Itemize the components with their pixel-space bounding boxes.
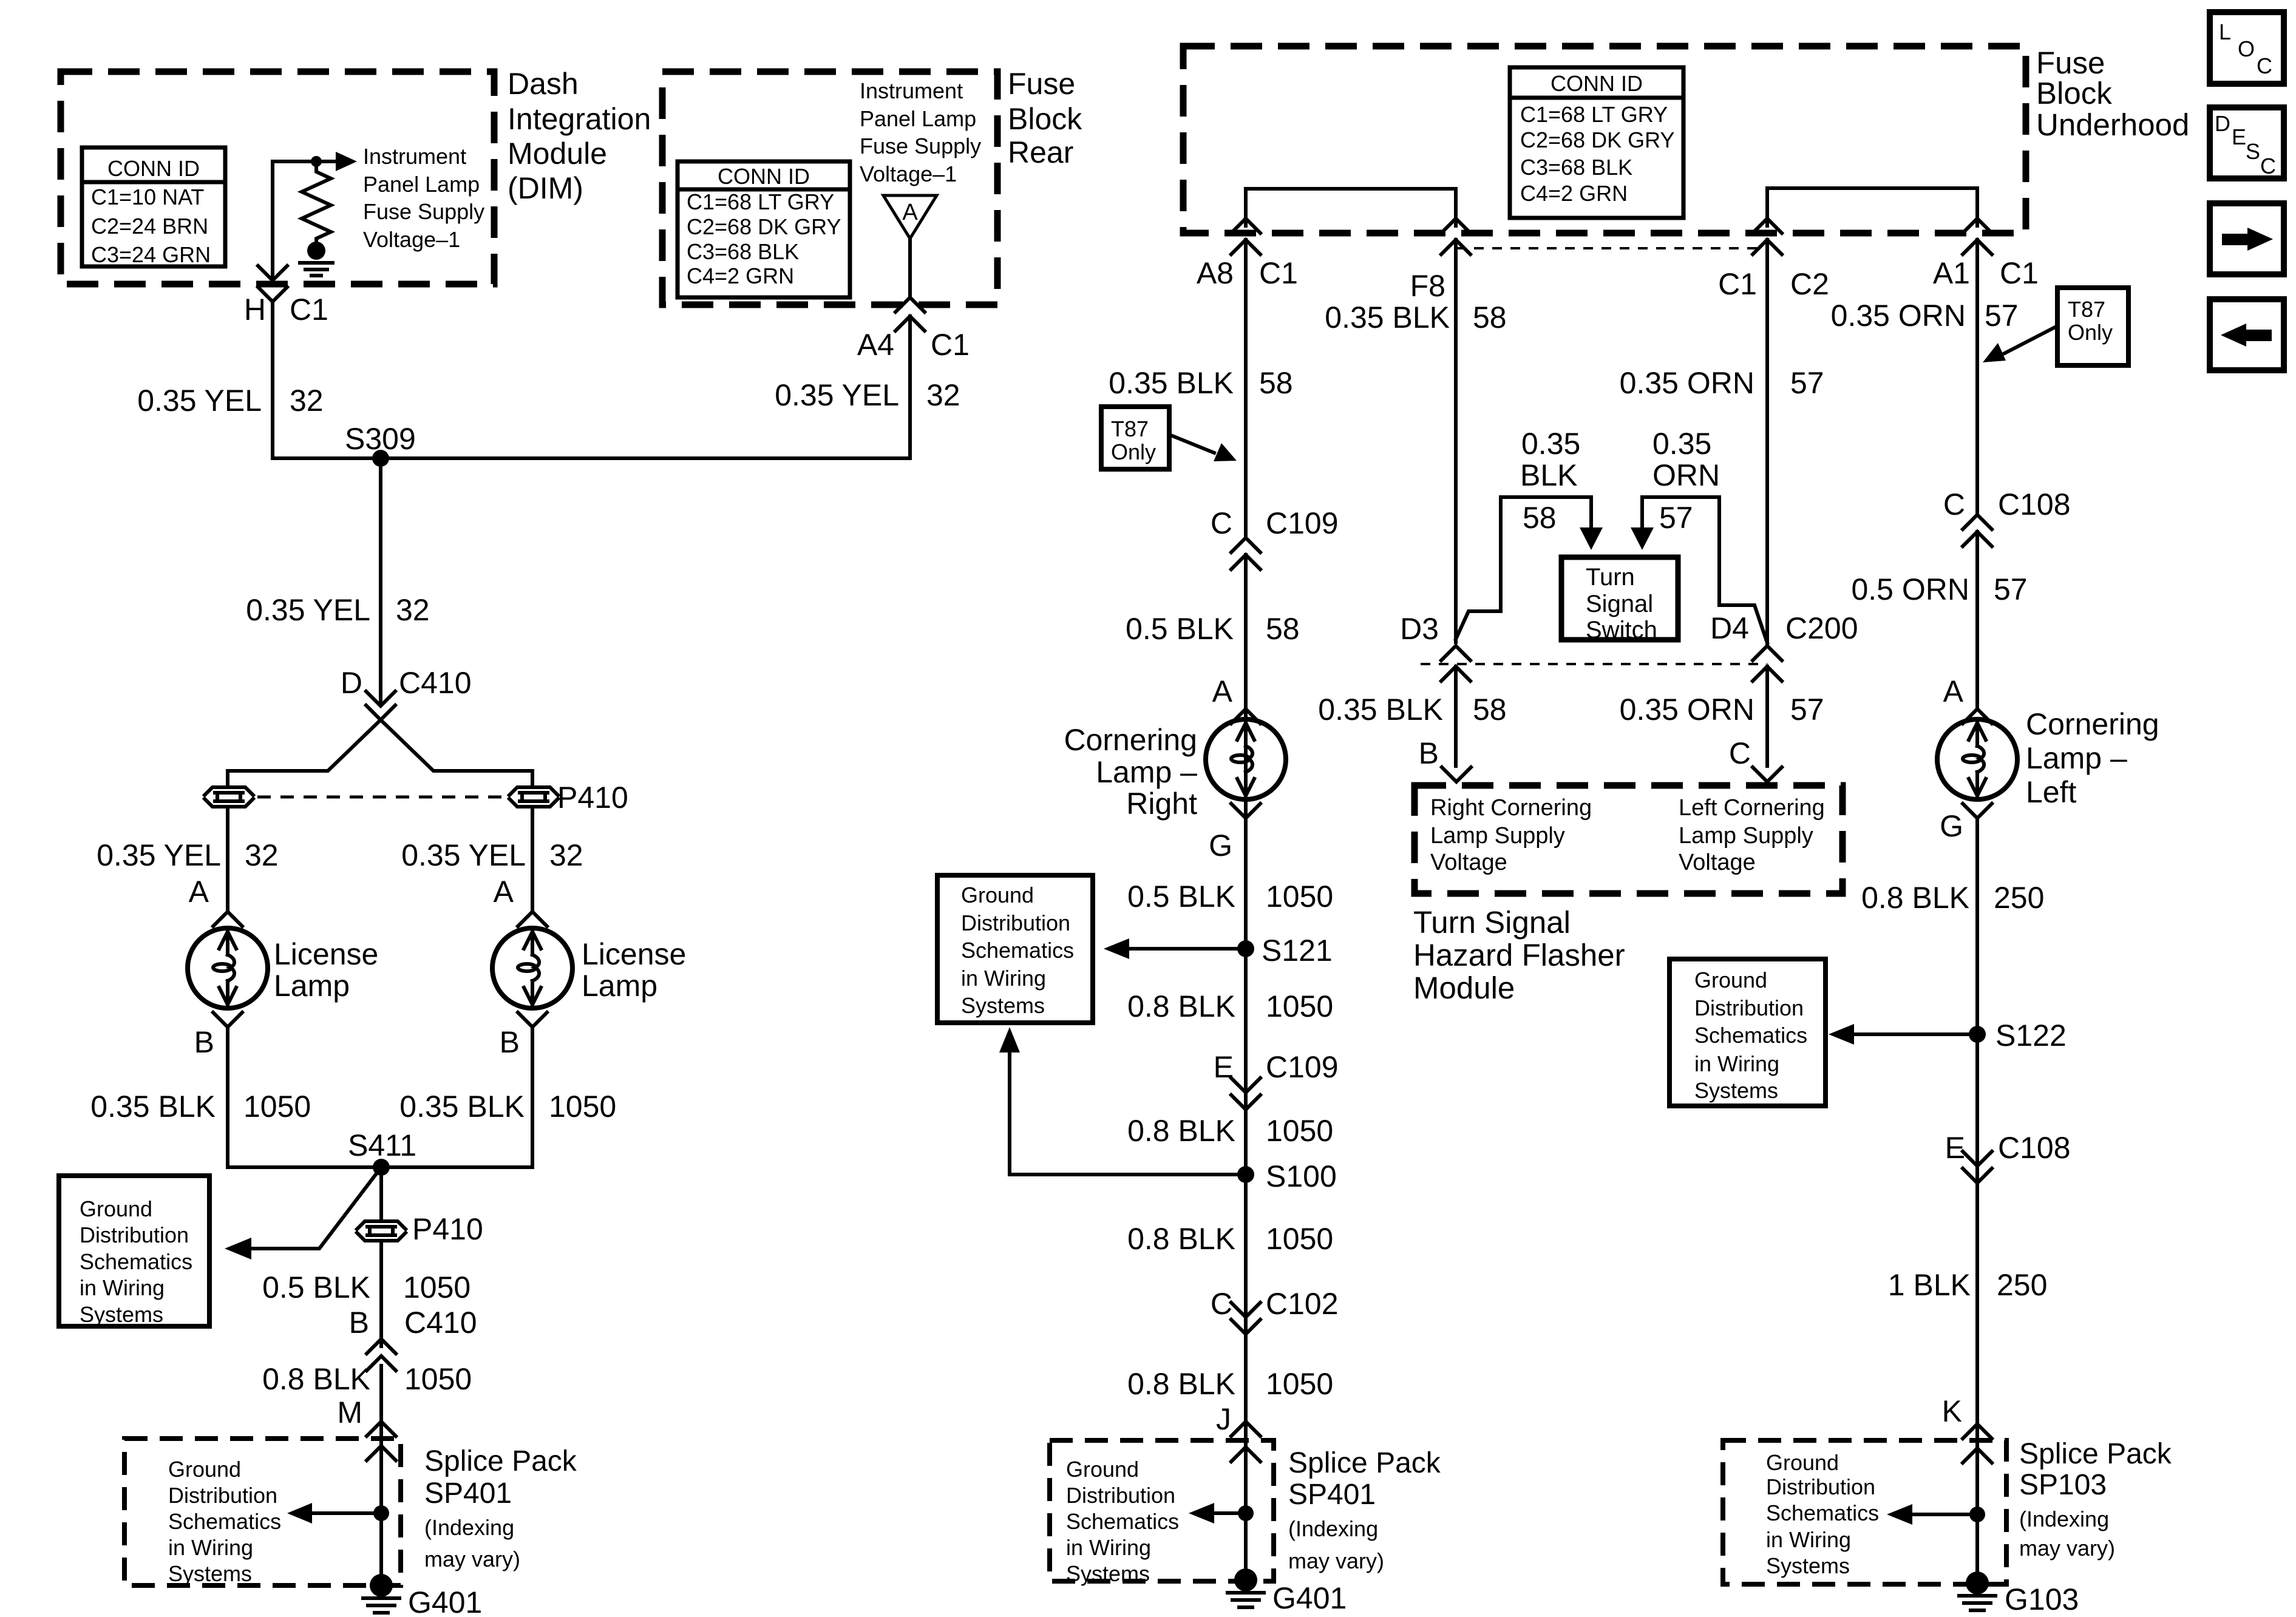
pin G cornering lamp right: [1209, 804, 1260, 863]
wire: S411 reference arrow to ground distribution note: [225, 1167, 381, 1259]
label: Fuse Block Underhood: [2036, 46, 2189, 142]
svg-text:Voltage–1: Voltage–1: [860, 161, 957, 186]
connector A4 / C1 at FBR boundary: [895, 297, 925, 331]
pin J: [1216, 1402, 1260, 1436]
svg-text:0.5 BLK: 0.5 BLK: [1126, 612, 1234, 646]
svg-text:58: 58: [1259, 366, 1293, 400]
svg-text:58: 58: [1266, 612, 1300, 646]
svg-text:0.8 BLK: 0.8 BLK: [1127, 1114, 1235, 1148]
wire: fuse to connector: [908, 239, 912, 295]
svg-text:B: B: [194, 1025, 214, 1059]
svg-text:Splice Pack: Splice Pack: [2019, 1438, 2172, 1470]
svg-text:SP401: SP401: [1288, 1479, 1376, 1511]
wire: S309 tie bar: [273, 456, 910, 460]
label: 0.35 BLK 58: [1109, 366, 1292, 400]
wire: 0.5 BLK 1050: [379, 1242, 383, 1346]
svg-text:T87: T87: [2068, 297, 2105, 322]
grommet P410 left: [205, 787, 253, 807]
svg-text:CONN ID: CONN ID: [107, 156, 200, 181]
note box T87 Only (left): [1101, 407, 1169, 469]
svg-text:Fuse Supply: Fuse Supply: [363, 199, 484, 224]
svg-text:Block: Block: [2036, 76, 2112, 110]
svg-text:Turn: Turn: [1586, 564, 1635, 591]
svg-text:Integration: Integration: [508, 102, 651, 136]
label: 0.8 BLK 1050: [262, 1362, 472, 1396]
label: 0.35 ORN 57 (switch right): [1652, 427, 1720, 535]
node S411: [348, 1128, 416, 1176]
svg-text:Left Cornering: Left Cornering: [1679, 795, 1825, 821]
connector E / C109: [1214, 1050, 1339, 1110]
label: Instrument Panel Lamp Fuse Supply Voltage-1 (FBR): [860, 78, 981, 186]
svg-text:0.5 ORN: 0.5 ORN: [1851, 572, 1969, 606]
svg-text:L: L: [2219, 19, 2231, 44]
lamp License Lamp right: [492, 928, 686, 1008]
icon box arrow left: [2210, 299, 2284, 370]
pin label C1 / C2: [1718, 267, 1829, 301]
svg-text:0.5 BLK: 0.5 BLK: [1127, 880, 1235, 914]
pin B right license lamp: [500, 1012, 547, 1059]
module box DIM (dashed): [61, 72, 494, 284]
svg-text:57: 57: [1659, 501, 1693, 535]
svg-text:1050: 1050: [1266, 1367, 1333, 1401]
svg-text:250: 250: [1994, 881, 2044, 915]
connector H / C1 at DIM boundary: [258, 266, 287, 302]
svg-text:C: C: [1211, 1287, 1232, 1321]
pin label F8: [1410, 269, 1445, 303]
svg-text:in Wiring: in Wiring: [1694, 1051, 1779, 1076]
svg-text:A: A: [1943, 674, 1964, 708]
svg-text:1050: 1050: [1266, 989, 1333, 1023]
svg-text:Right: Right: [1126, 787, 1197, 821]
wire: 0.8 BLK 1050 to splice pack: [379, 1366, 383, 1585]
pin label C1: [931, 328, 970, 362]
wire: 0.35 BLK 58 from A8: [1244, 240, 1248, 537]
svg-text:J: J: [1216, 1402, 1231, 1436]
label: Fuse Block Rear: [1008, 67, 1082, 169]
svg-text:CONN ID: CONN ID: [1550, 71, 1643, 96]
svg-text:Lamp –: Lamp –: [1096, 755, 1197, 789]
svg-text:in Wiring: in Wiring: [961, 966, 1046, 991]
connector arrows leaving fuse block: [1231, 240, 1992, 254]
wire: S411 to P410 grommet: [379, 1167, 383, 1220]
node: junction dot on resistor feed: [311, 156, 322, 167]
pin label A8 / C1: [1197, 256, 1298, 290]
svg-text:32: 32: [245, 838, 279, 872]
label: 0.5 ORN 57: [1851, 572, 2027, 606]
svg-text:0.35 YEL: 0.35 YEL: [137, 384, 262, 418]
svg-text:Systems: Systems: [1766, 1553, 1850, 1578]
wire: 0.8 BLK 250 down through S122: [1975, 818, 1979, 1585]
svg-text:Underhood: Underhood: [2036, 107, 2189, 142]
svg-text:Block: Block: [1008, 102, 1082, 136]
node S122: [1969, 1019, 2067, 1053]
svg-text:F8: F8: [1410, 269, 1445, 303]
note box T87 Only (right): [2057, 288, 2128, 365]
ground G401 (middle): [1228, 1568, 1347, 1615]
svg-text:Schematics: Schematics: [1066, 1509, 1179, 1534]
module box Fuse Block Underhood (dashed): [1183, 46, 2026, 233]
svg-text:C2=68 DK GRY: C2=68 DK GRY: [1520, 127, 1674, 152]
connector B / C410: [349, 1306, 477, 1371]
svg-text:Distribution: Distribution: [80, 1222, 189, 1247]
svg-text:0.35: 0.35: [1652, 427, 1711, 461]
svg-text:Systems: Systems: [961, 993, 1045, 1018]
svg-text:0.35 YEL: 0.35 YEL: [401, 838, 526, 872]
svg-text:C: C: [2260, 154, 2276, 178]
svg-text:0.35 BLK: 0.35 BLK: [399, 1090, 525, 1124]
svg-text:Distribution: Distribution: [961, 910, 1070, 935]
wire: branch D4 to turn signal switch: [1631, 497, 1767, 643]
svg-text:C1: C1: [1259, 256, 1298, 290]
label: Turn Signal Hazard Flasher Module: [1413, 905, 1625, 1005]
svg-text:Schematics: Schematics: [1694, 1023, 1807, 1048]
svg-text:Fuse Supply: Fuse Supply: [860, 134, 981, 158]
label: 0.35 ORN 57 (A1): [1831, 299, 2019, 333]
svg-text:57: 57: [1994, 572, 2028, 606]
svg-text:32: 32: [396, 593, 430, 627]
svg-text:0.35 YEL: 0.35 YEL: [246, 593, 370, 627]
splice pack SP103 box (dashed): [1723, 1440, 2006, 1584]
svg-text:57: 57: [1790, 693, 1824, 727]
svg-text:S: S: [2246, 139, 2260, 164]
svg-text:C1: C1: [2000, 256, 2039, 290]
label: 0.8 BLK 1050: [1127, 1367, 1333, 1401]
svg-text:B: B: [349, 1306, 369, 1340]
table CONN ID (Fuse Block Underhood): [1510, 67, 1683, 218]
wire arrow into SP401 (middle): [1231, 1447, 1260, 1462]
svg-text:S411: S411: [348, 1128, 416, 1162]
wire: 0.35 BLK 58 from F8 to D3: [1454, 240, 1458, 642]
svg-text:Panel Lamp: Panel Lamp: [860, 106, 976, 131]
svg-text:A4: A4: [857, 328, 894, 362]
svg-text:C: C: [1943, 487, 1965, 521]
svg-text:SP103: SP103: [2019, 1469, 2107, 1501]
wire: internal bus C1-A1: [1767, 188, 1977, 226]
svg-text:Schematics: Schematics: [80, 1249, 192, 1274]
svg-text:Splice Pack: Splice Pack: [1288, 1447, 1441, 1479]
svg-text:(Indexing: (Indexing: [2019, 1507, 2109, 1531]
svg-text:License: License: [274, 937, 378, 971]
label: 0.5 BLK 1050: [1127, 880, 1333, 914]
svg-text:P410: P410: [412, 1212, 483, 1246]
label: 0.35 ORN 57: [1620, 693, 1824, 727]
svg-text:C109: C109: [1266, 506, 1339, 540]
svg-text:D4: D4: [1710, 611, 1749, 645]
label: 0.8 BLK 1050: [1127, 989, 1333, 1023]
svg-text:S309: S309: [345, 422, 416, 456]
pin chevron C1 (inside): [1753, 219, 1782, 233]
svg-text:C1: C1: [1718, 267, 1757, 301]
wire: reference arrow to note (left SP401): [287, 1503, 381, 1524]
component box Turn Signal Switch: [1561, 557, 1678, 643]
wire: 0.35 BLK 1050 left: [226, 1027, 229, 1167]
svg-text:Schematics: Schematics: [1766, 1500, 1879, 1525]
pin A cornering lamp right: [1212, 674, 1260, 724]
label: 0.8 BLK 250: [1861, 881, 2044, 915]
node: SP401 internal junction: [373, 1505, 389, 1521]
svg-text:A: A: [1212, 674, 1233, 708]
ground (DIM internal): [300, 242, 333, 276]
svg-text:License: License: [582, 937, 686, 971]
svg-text:in Wiring: in Wiring: [80, 1275, 165, 1300]
svg-text:57: 57: [1790, 366, 1824, 400]
wire: split to both license lamps: [228, 720, 532, 771]
module box Turn Signal Hazard Flasher Module (dashed): [1415, 785, 1843, 893]
connector D / C410: [341, 666, 472, 720]
ground G103: [1959, 1571, 2079, 1616]
note text: Ground Distribution Schematics in Wiring Systems (SP401 middle): [1066, 1457, 1179, 1586]
svg-text:Dash: Dash: [508, 67, 579, 101]
label: Splice Pack SP103: [2019, 1438, 2172, 1561]
svg-text:Voltage: Voltage: [1430, 850, 1507, 875]
wire: left drop to P410: [226, 771, 229, 785]
wire: 0.35 YEL 32 left lamp feed: [226, 808, 229, 909]
svg-text:Rear: Rear: [1008, 135, 1073, 169]
svg-text:0.8 BLK: 0.8 BLK: [1127, 1367, 1235, 1401]
svg-text:C109: C109: [1266, 1050, 1339, 1084]
svg-text:0.35 YEL: 0.35 YEL: [775, 378, 899, 412]
wire arrow into SP401: [367, 1446, 396, 1460]
pin chevron A1 (inside): [1963, 219, 1992, 233]
node S121: [1237, 934, 1333, 968]
wire: 0.35 YEL 32 right lamp feed: [531, 808, 534, 909]
note box: Ground Distribution Schematics in Wiring Systems (right): [1669, 959, 1826, 1106]
pin A left license lamp: [189, 875, 242, 926]
svg-text:Lamp Supply: Lamp Supply: [1679, 823, 1813, 849]
svg-text:Voltage–1: Voltage–1: [363, 227, 460, 252]
svg-text:0.35 BLK: 0.35 BLK: [1109, 366, 1234, 400]
wire: S122 reference arrow: [1829, 1024, 1977, 1045]
svg-text:0.35 BLK: 0.35 BLK: [1318, 693, 1443, 727]
svg-text:in Wiring: in Wiring: [1066, 1535, 1151, 1560]
label: 0.5 BLK 1050: [262, 1270, 470, 1304]
pin A cornering lamp left: [1943, 674, 1992, 724]
note box: Ground Distribution Schematics in Wiring Systems (left): [59, 1176, 209, 1327]
label: Instrument Panel Lamp Fuse Supply Voltage-1 (DIM): [363, 144, 484, 252]
label: Right Cornering Lamp Supply Voltage: [1430, 795, 1592, 875]
label: 0.5 BLK 58: [1126, 612, 1300, 646]
svg-text:M: M: [337, 1395, 362, 1429]
svg-text:may vary): may vary): [424, 1547, 520, 1571]
svg-text:Systems: Systems: [1066, 1561, 1150, 1586]
svg-text:A8: A8: [1197, 256, 1234, 290]
svg-text:T87: T87: [1111, 416, 1149, 441]
svg-text:A1: A1: [1933, 256, 1970, 290]
wire: reference arrow to note (middle SP401): [1189, 1503, 1246, 1524]
pin label A1 / C1: [1933, 256, 2039, 290]
svg-text:Cornering: Cornering: [2026, 707, 2159, 741]
svg-text:Schematics: Schematics: [168, 1509, 281, 1534]
node S309: [345, 422, 416, 467]
grommet tie line (dashed): [257, 796, 505, 799]
label: 1 BLK 250: [1888, 1268, 2048, 1302]
wire: DIM internal feed: [273, 161, 311, 279]
icon box DESC: [2210, 107, 2284, 178]
splice pack SP401 box (left, dashed): [124, 1439, 401, 1585]
pin B left license lamp: [194, 1012, 242, 1059]
resistor (DIM internal): [302, 161, 331, 242]
svg-text:H: H: [244, 293, 266, 327]
svg-text:C2: C2: [1790, 267, 1829, 301]
node: SP103 internal junction: [1969, 1507, 1985, 1522]
svg-text:Lamp Supply: Lamp Supply: [1430, 823, 1565, 849]
label: 0.35 BLK 1050 (left): [90, 1090, 311, 1124]
ground G401 (left): [363, 1574, 482, 1617]
svg-text:C4=2 GRN: C4=2 GRN: [1520, 181, 1628, 206]
svg-text:C3=24 GRN: C3=24 GRN: [91, 242, 211, 267]
icon box LOC: [2210, 12, 2284, 84]
svg-text:Ground: Ground: [1694, 968, 1767, 992]
wire: 0.35 YEL 32 from DIM to S309: [271, 302, 274, 458]
label: 0.8 BLK 1050: [1127, 1114, 1333, 1148]
svg-text:0.8 BLK: 0.8 BLK: [1861, 881, 1969, 915]
node S100: [1237, 1159, 1337, 1193]
wire: 0.35 ORN 57 from C2 to D4: [1765, 240, 1769, 646]
svg-text:Ground: Ground: [1066, 1457, 1139, 1482]
label: 0.35 YEL 32: [137, 384, 323, 418]
svg-text:in Wiring: in Wiring: [1766, 1527, 1851, 1552]
svg-text:0.35 YEL: 0.35 YEL: [97, 838, 221, 872]
wire: arrow to Instrument Panel Lamp text: [321, 152, 357, 171]
svg-text:C1: C1: [931, 328, 970, 362]
svg-text:C: C: [1729, 736, 1751, 770]
svg-text:S100: S100: [1266, 1159, 1337, 1193]
wire: 0.35 ORN 57 from A1: [1975, 240, 1979, 514]
svg-text:Systems: Systems: [1694, 1078, 1778, 1103]
svg-text:may vary): may vary): [2019, 1536, 2115, 1561]
label: 0.35 BLK 58: [1318, 693, 1506, 727]
icon box arrow right: [2210, 203, 2284, 274]
svg-text:Ground: Ground: [1766, 1450, 1839, 1475]
lamp Cornering Lamp Left: [1937, 707, 2159, 809]
svg-text:S122: S122: [1995, 1019, 2067, 1053]
svg-text:Distribution: Distribution: [1066, 1483, 1175, 1508]
svg-text:0.35: 0.35: [1521, 427, 1580, 461]
svg-text:Schematics: Schematics: [961, 938, 1074, 963]
label: 0.35 BLK 1050 (right): [399, 1090, 616, 1124]
svg-text:Cornering: Cornering: [1064, 723, 1197, 757]
svg-text:P410: P410: [557, 781, 628, 815]
svg-text:E: E: [1214, 1050, 1234, 1084]
wire: S411 tie bar: [228, 1165, 532, 1169]
svg-text:Ground: Ground: [961, 883, 1034, 907]
svg-text:0.35 ORN: 0.35 ORN: [1831, 299, 1966, 333]
pin label A4: [857, 328, 894, 362]
connector C / C108: [1943, 487, 2071, 546]
svg-text:C410: C410: [404, 1306, 477, 1340]
svg-text:C3=68 BLK: C3=68 BLK: [687, 239, 799, 264]
note box: Ground Distribution Schematics in Wiring Systems (middle): [937, 875, 1093, 1023]
pin B flasher module: [1419, 736, 1471, 782]
svg-text:250: 250: [1997, 1268, 2047, 1302]
svg-text:G401: G401: [408, 1585, 482, 1617]
svg-text:C2=68 DK GRY: C2=68 DK GRY: [687, 214, 841, 239]
wire: reference arrow to note (SP103): [1887, 1504, 1977, 1525]
label: Left Cornering Lamp Supply Voltage: [1679, 795, 1825, 875]
svg-text:C4=2 GRN: C4=2 GRN: [687, 263, 794, 288]
svg-text:1050: 1050: [1266, 1114, 1333, 1148]
svg-text:1 BLK: 1 BLK: [1888, 1268, 1971, 1302]
wire: branch D3 to turn signal switch: [1456, 497, 1603, 639]
pin M: [337, 1395, 396, 1436]
pin A right license lamp: [494, 875, 547, 926]
svg-text:1050: 1050: [1266, 880, 1333, 914]
wire: S100 reference arrow up into note box: [999, 1027, 1246, 1175]
svg-text:Fuse: Fuse: [1008, 67, 1075, 101]
svg-text:0.35 BLK: 0.35 BLK: [1325, 300, 1450, 334]
svg-text:Lamp: Lamp: [274, 969, 350, 1003]
svg-text:Distribution: Distribution: [1766, 1474, 1875, 1499]
connector E / C108: [1945, 1131, 2071, 1183]
svg-text:A: A: [902, 200, 918, 225]
connector D3 / C200: [1400, 612, 1470, 681]
label: 0.35 BLK 58 (switch left): [1520, 427, 1580, 535]
svg-text:Module: Module: [1413, 971, 1515, 1005]
svg-text:0.5 BLK: 0.5 BLK: [262, 1270, 370, 1304]
wire: 0.35 BLK 1050 right: [531, 1027, 534, 1167]
label: 0.8 BLK 1050: [1127, 1222, 1333, 1256]
label P410: [557, 781, 628, 815]
svg-text:C410: C410: [399, 666, 472, 700]
wire: 0.35 BLK 58 from D3 to flasher module pin B: [1454, 666, 1458, 766]
svg-text:0.35 BLK: 0.35 BLK: [90, 1090, 216, 1124]
svg-text:in Wiring: in Wiring: [168, 1535, 253, 1560]
svg-text:Distribution: Distribution: [168, 1483, 277, 1508]
connector C / C102: [1211, 1287, 1339, 1334]
svg-text:1050: 1050: [243, 1090, 311, 1124]
svg-text:(DIM): (DIM): [508, 171, 583, 205]
svg-text:Hazard Flasher: Hazard Flasher: [1413, 938, 1625, 972]
note text: Ground Distribution Schematics in Wiring Systems (SP401 left): [168, 1457, 281, 1586]
svg-text:Switch: Switch: [1586, 617, 1657, 643]
wire: T87 pointer arrow: [1169, 435, 1237, 461]
svg-text:C1=68 LT GRY: C1=68 LT GRY: [1520, 102, 1668, 127]
svg-text:Distribution: Distribution: [1694, 995, 1804, 1020]
svg-text:C108: C108: [1998, 487, 2071, 521]
svg-text:Only: Only: [2068, 320, 2113, 345]
svg-text:C: C: [2257, 53, 2272, 78]
label: 0.35 ORN 57 (C2): [1620, 366, 1824, 400]
svg-text:G103: G103: [2005, 1582, 2079, 1616]
svg-text:32: 32: [549, 838, 583, 872]
module box Fuse Block Rear (dashed): [662, 72, 997, 305]
connector D4 / C200: [1710, 611, 1858, 681]
svg-text:Ground: Ground: [168, 1457, 241, 1482]
svg-text:Splice Pack: Splice Pack: [424, 1445, 577, 1477]
label: 0.35 YEL 32: [775, 378, 960, 412]
svg-text:Only: Only: [1111, 439, 1156, 464]
wire: 0.5 BLK 1050: [1244, 818, 1248, 1167]
wire: 0.35 YEL 32 down to S309 bar: [908, 316, 912, 458]
fuse symbol A (triangle): [883, 195, 937, 239]
wire: 0.8 BLK 1050 to C102: [1244, 1175, 1248, 1585]
connector C1 tie line (thin dashed): [1456, 247, 1767, 249]
node: SP401 internal junction (middle): [1238, 1505, 1254, 1521]
svg-text:C102: C102: [1266, 1287, 1339, 1321]
svg-text:Lamp: Lamp: [582, 969, 657, 1003]
svg-text:Instrument: Instrument: [363, 144, 466, 169]
svg-text:1050: 1050: [403, 1270, 470, 1304]
svg-text:G: G: [1209, 829, 1232, 863]
svg-text:A: A: [189, 875, 209, 909]
svg-text:C1=10 NAT: C1=10 NAT: [91, 185, 204, 209]
connector C200 tie line (thin dashed): [1421, 663, 1767, 665]
svg-text:Systems: Systems: [80, 1302, 163, 1327]
svg-text:32: 32: [926, 378, 960, 412]
svg-text:0.8 BLK: 0.8 BLK: [1127, 989, 1235, 1023]
svg-text:Fuse: Fuse: [2036, 46, 2105, 80]
label: 0.35 YEL 32 (right): [401, 838, 583, 872]
